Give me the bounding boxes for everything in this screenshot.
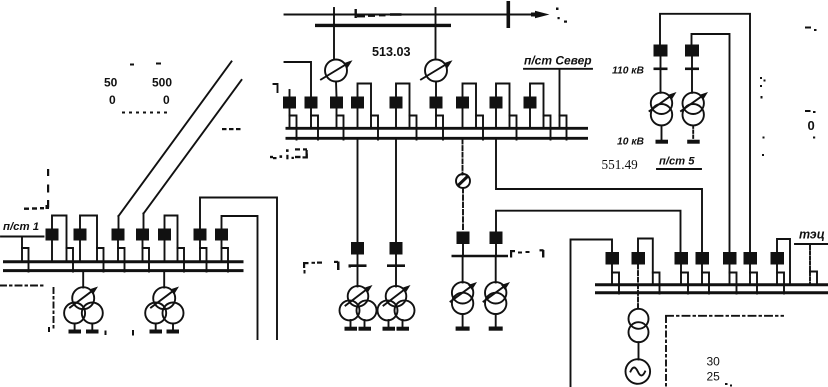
- breaker: middle QB: [490, 232, 503, 256]
- svg-text:тэц: тэц: [799, 228, 825, 242]
- bus: п/ст 1 bus I: [3, 260, 244, 263]
- wire: dashed feeder bay7 down to disconnector: [462, 140, 464, 175]
- node: dotted row under values: [122, 112, 167, 114]
- wire: drop from line to autotransformer AT1: [333, 8, 335, 60]
- bus: ТЭЦ bus II: [595, 291, 828, 294]
- bay: center breaker 3 under AT1: [330, 97, 344, 140]
- bus: п/ст 1 bus II: [3, 269, 244, 272]
- label: faded text fragments near right T pair: [510, 249, 544, 257]
- wire: corner H2 to ТЭЦ bay 3 and down to breaker B: [496, 211, 681, 252]
- wire: tie bar under QA QB: [452, 255, 509, 258]
- bay: center breaker 8 with loop: [490, 84, 517, 140]
- node: small marks near п/ст 1 transformer grounds: [105, 330, 135, 336]
- transformer: bottom-center T2 three-winding regulated: [378, 285, 415, 329]
- bus: 330kV short busbar: [315, 24, 451, 27]
- bay: ТЭЦ breaker 2 generator-transformer: [632, 239, 660, 309]
- disconnector: circle with slash on feeder: [456, 174, 470, 232]
- bay: center breaker 9 with loop: [524, 84, 551, 140]
- wire: long line A to п/ст 1 bay 3: [119, 62, 232, 229]
- wire: п/ст 5 supply line top: [660, 14, 750, 252]
- transformer: ТЭЦ block transformer two-winding: [629, 309, 649, 360]
- bay: ТЭЦ breaker 6: [744, 252, 758, 294]
- node: right margin dash above zero: [805, 110, 816, 113]
- bay: ТЭЦ breaker 3: [675, 252, 689, 294]
- bay: п/ст 1 breaker 1 with loop: [46, 216, 74, 272]
- transformer: middle T-left two-winding regulated: [451, 256, 478, 329]
- svg-text:0: 0: [808, 118, 815, 133]
- bay: ТЭЦ breaker 7 with right loop: [771, 239, 791, 294]
- transformer: п/ст 5 T1 two-winding regulated: [650, 92, 677, 142]
- transformer: п/ст 1 T1 three-winding regulated: [64, 272, 103, 332]
- bay: ТЭЦ breaker 4: [696, 252, 710, 294]
- transformer: п/ст 1 T2 three-winding regulated: [145, 272, 183, 332]
- bay: п/ст 1 breaker 5 with loop: [158, 216, 184, 272]
- node: bottom edge dots: [725, 383, 732, 387]
- breaker: п/ст 5 Q1: [654, 45, 668, 93]
- label: faded 511.03 under bus (broken glyph fragments): [270, 148, 308, 159]
- svg-text:50: 50: [104, 76, 118, 90]
- breaker: п/ст 5 Q2: [685, 45, 699, 93]
- label: faded text fragments near bottom-center T pair: [303, 261, 351, 274]
- wire: feeder bus to bottom-center T1: [357, 140, 359, 243]
- node: line crossing hash mark: [507, 1, 511, 28]
- svg-text:п/ст 5: п/ст 5: [659, 156, 695, 168]
- label: п/ст 5: [657, 156, 701, 170]
- svg-text:0: 0: [163, 93, 170, 107]
- label: power values 50 / 500: [104, 63, 172, 108]
- node: dash-dot boundary bottom left: [0, 286, 54, 333]
- bus: center 110kV bus I: [286, 127, 589, 130]
- svg-text:110 кВ: 110 кВ: [612, 66, 644, 77]
- bay: ТЭЦ breaker 5: [723, 252, 737, 294]
- transformer: middle T-right two-winding regulated: [484, 256, 511, 329]
- wire: 330kV overhead line to right with arrow: [285, 11, 550, 19]
- node: small stub mark left of bay 1: [274, 84, 278, 92]
- wire: п/ст Север feeder drop: [560, 69, 567, 140]
- node: dash marks mid left: [222, 128, 241, 130]
- bay: п/ст 1 breaker 2 with loop: [74, 216, 104, 272]
- bay: center breaker 2 with corner feeder: [285, 62, 319, 140]
- wire: drop from line to autotransformer AT2: [435, 8, 437, 60]
- transformer: п/ст 5 T2 two-winding regulated: [681, 92, 708, 142]
- wire: п/ст 1 feeder from label: [22, 238, 29, 272]
- breaker: bottom-center Q1: [349, 242, 367, 287]
- label: тэц: [795, 228, 828, 285]
- wire: bay8 feeder down and corner H1 to ТЭЦ bay 4: [496, 140, 702, 253]
- node: faded 330kV label dashes: [355, 8, 568, 23]
- node: top right corner dash marks: [805, 27, 817, 32]
- svg-text:513.03: 513.03: [372, 45, 411, 59]
- bus: ТЭЦ bus I: [595, 283, 828, 286]
- bay: п/ст 1 breaker 7 with corner to free end: [215, 216, 258, 339]
- svg-text:п/ст 1: п/ст 1: [3, 221, 39, 233]
- bay: center breaker 4 with loop: [351, 84, 378, 140]
- transformer: bottom-center T1 three-winding regulated: [340, 285, 377, 329]
- breaker: middle QA: [457, 232, 470, 256]
- bay: п/ст 1 breaker 4 (line B): [136, 229, 149, 272]
- label: п/ст Север: [524, 54, 592, 69]
- bay: center breaker 5 with loop: [390, 84, 417, 140]
- svg-text:п/ст Север: п/ст Север: [524, 54, 592, 68]
- svg-text:0: 0: [109, 93, 116, 107]
- bay: center breaker 6 under AT2: [430, 97, 444, 140]
- transformer AT2 (regulated, single circle with arrow): [421, 60, 453, 97]
- svg-text:500: 500: [152, 76, 172, 90]
- breaker: bottom-center Q2: [387, 242, 405, 287]
- wire: long line B to п/ст 1 bay 4: [144, 80, 242, 229]
- bay: center breaker 1 with stub: [283, 90, 297, 140]
- node: scattered dots right of п/ст 5: [760, 77, 815, 156]
- bay: п/ст 1 breaker 3 (line A): [112, 229, 125, 272]
- svg-text:25: 25: [707, 370, 721, 384]
- svg-text:30: 30: [707, 355, 721, 369]
- label: п/ст 1: [1, 221, 44, 237]
- wire: п/ст 5 supply line second: [692, 34, 730, 252]
- node: dash-dot boundary of ТЭЦ area: [666, 316, 783, 387]
- bay: п/ст 1 breaker 6 with corner to free end: [194, 198, 278, 340]
- wire: feeder bus to bottom-center T2: [395, 140, 397, 243]
- svg-text:551.49: 551.49: [602, 157, 639, 172]
- transformer AT1 (regulated, single circle with arrow): [321, 60, 353, 97]
- bay: ТЭЦ breaker 1 with left loop to free end: [571, 240, 620, 387]
- generator: ТЭЦ generator G: [626, 359, 651, 384]
- svg-text:10 кВ: 10 кВ: [617, 137, 645, 148]
- bay: center breaker 7 with loop: [456, 84, 483, 140]
- bus: center 110kV bus II: [286, 137, 589, 140]
- node: dashed boundary corner left of п/ст 1: [24, 169, 49, 210]
